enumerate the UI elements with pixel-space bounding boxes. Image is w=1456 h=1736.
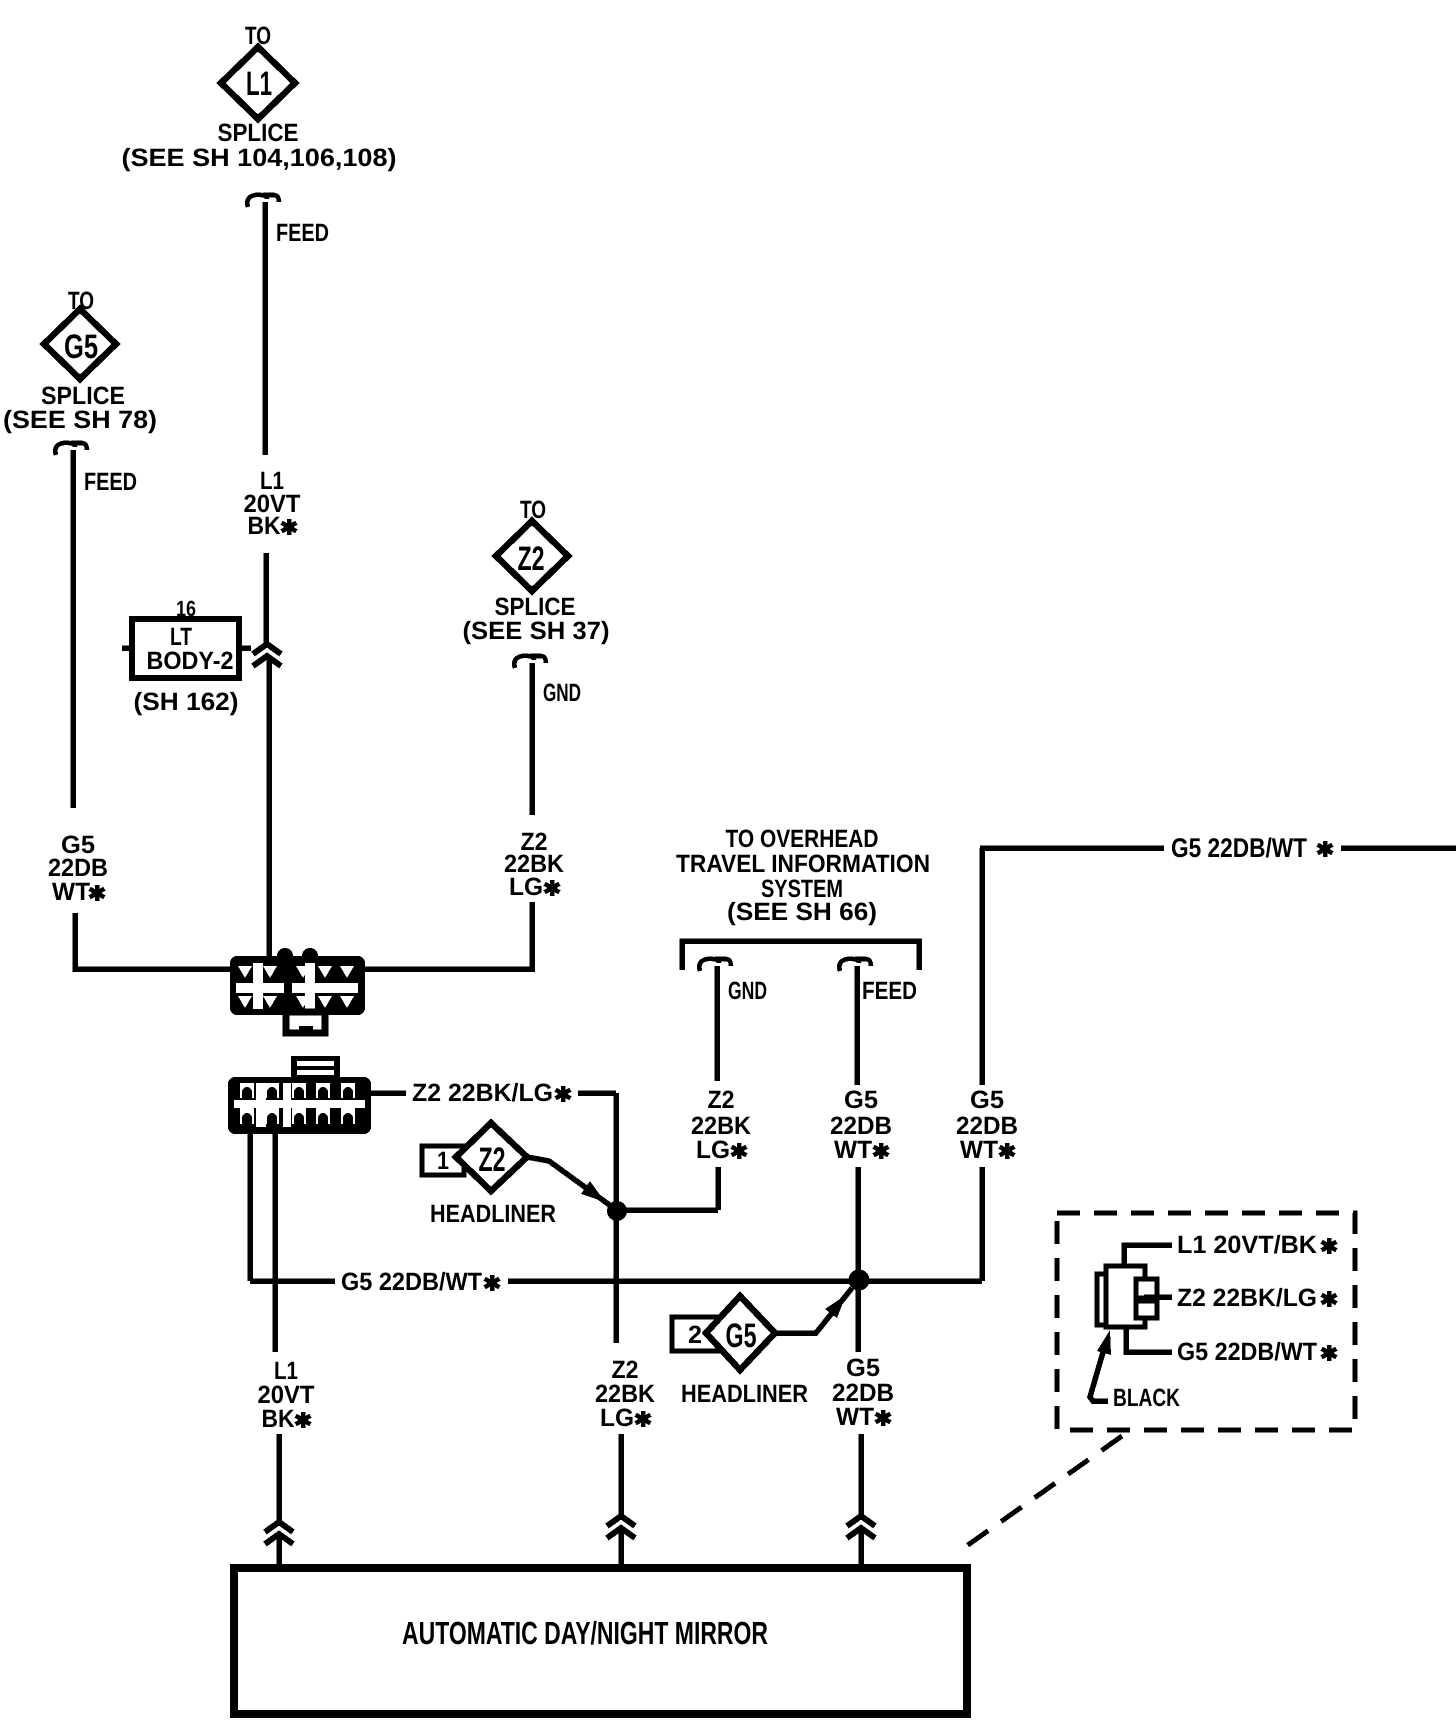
connector C2 (lower 10-way)	[228, 1056, 371, 1134]
svg-text:1: 1	[437, 1147, 449, 1175]
wire Z2 gnd drop	[714, 966, 720, 1081]
svg-text:G5: G5	[846, 1354, 880, 1382]
svg-text:LG: LG	[509, 873, 543, 901]
svg-text:(SEE SH 66): (SEE SH 66)	[727, 898, 877, 926]
splice symbol Z2	[463, 496, 610, 645]
svg-text:G5: G5	[970, 1086, 1004, 1114]
label G5 22DB WT* (right column)	[956, 1086, 1018, 1164]
wire junction A arm to Z2 gnd drop	[617, 1167, 718, 1210]
wire Z2 into connector C1 right side	[365, 902, 532, 969]
wire G5 22DB/WT* (detail)	[1126, 1327, 1172, 1352]
connector hook GND drop	[699, 959, 731, 971]
connector hook to Z2 splice	[514, 656, 546, 668]
svg-text:G5 22DB/WT: G5 22DB/WT	[341, 1268, 482, 1296]
svg-text:LG: LG	[600, 1404, 634, 1432]
wire L1 20VT/BK* (detail)	[1124, 1245, 1172, 1266]
connector hook FEED drop	[839, 959, 871, 971]
svg-text:L1: L1	[246, 65, 272, 103]
bracket for overhead travel information system	[682, 941, 919, 970]
svg-text:G5: G5	[64, 328, 98, 366]
wire G5 22DB/WT* horizontal	[250, 1134, 982, 1281]
svg-text:G5 22DB/WT: G5 22DB/WT	[1177, 1338, 1317, 1366]
svg-text:TRAVEL INFORMATION: TRAVEL INFORMATION	[676, 850, 930, 878]
svg-text:G5 22DB/WT: G5 22DB/WT	[1171, 833, 1307, 863]
label G5 22DB WT* (feed drop column)	[830, 1086, 892, 1164]
wire Z2 vertical to junction	[613, 1093, 619, 1343]
junction B (dot)	[849, 1270, 870, 1291]
svg-text:AUTOMATIC DAY/NIGHT MIRROR: AUTOMATIC DAY/NIGHT MIRROR	[402, 1615, 768, 1651]
svg-text:SPLICE: SPLICE	[218, 119, 299, 147]
label Z2 22BK LG* (column)	[504, 828, 564, 901]
svg-text:(SEE SH 78): (SEE SH 78)	[3, 406, 157, 434]
wire G5 right vertical	[979, 848, 985, 1281]
wire L1 feed upper	[262, 202, 268, 455]
svg-text:WT: WT	[960, 1136, 998, 1164]
wire G5 feed to junction B	[855, 1167, 861, 1352]
wire L1 bottom with chevron	[276, 1434, 282, 1522]
svg-text:FEED: FEED	[276, 219, 329, 247]
svg-text:(SEE SH 104,106,108): (SEE SH 104,106,108)	[122, 144, 397, 172]
label BLACK with arrow	[1090, 1342, 1108, 1401]
svg-text:(SEE SH 37): (SEE SH 37)	[463, 617, 610, 645]
connector hook to G5 splice	[55, 443, 87, 455]
label Z2 22BK LG* (gnd drop column)	[691, 1086, 751, 1164]
svg-text:WT: WT	[834, 1136, 872, 1164]
headliner tag 2 G5	[672, 1296, 808, 1408]
svg-text:FEED: FEED	[862, 977, 917, 1005]
wire L1 mid	[263, 553, 269, 644]
svg-text:FEED: FEED	[84, 468, 137, 496]
dashed detail box	[1057, 1213, 1355, 1430]
wire Z2 22BK/LG from connector C2	[371, 1090, 616, 1096]
component box 16 LT BODY-2	[122, 596, 251, 716]
svg-text:2: 2	[688, 1321, 702, 1349]
svg-text:HEADLINER: HEADLINER	[430, 1200, 556, 1228]
svg-text:Z2: Z2	[708, 1086, 735, 1114]
in-line connector chevron (L1 wire)	[253, 644, 281, 666]
svg-text:Z2 22BK/LG: Z2 22BK/LG	[1177, 1284, 1317, 1312]
dashed leader to mirror box	[958, 1436, 1122, 1552]
svg-text:G5: G5	[726, 1317, 757, 1355]
splice symbol L1 (top)	[122, 22, 397, 172]
wire Z2 22BK/LG* (detail)	[1144, 1294, 1172, 1300]
connector C1 (upper 10-way)	[230, 948, 365, 1034]
svg-text:Z2 22BK/LG: Z2 22BK/LG	[412, 1079, 553, 1107]
headliner tag 1 Z2	[422, 1123, 556, 1228]
svg-text:TO OVERHEAD: TO OVERHEAD	[726, 825, 879, 853]
label L1 20VT BK* (upper column)	[244, 467, 301, 540]
svg-text:GND: GND	[543, 679, 581, 707]
svg-text:WT: WT	[52, 878, 90, 906]
svg-text:Z2: Z2	[479, 1141, 506, 1179]
svg-text:WT: WT	[836, 1403, 874, 1431]
wire G5 bottom with chevron	[858, 1434, 864, 1516]
wire G5 into connector C1	[75, 913, 230, 969]
wire L1 to mirror	[272, 1134, 278, 1352]
label TO OVERHEAD TRAVEL INFORMATION SYSTEM (SEE SH 66)	[676, 825, 930, 926]
svg-text:Z2: Z2	[518, 540, 545, 578]
svg-text:BK: BK	[248, 512, 281, 540]
svg-text:(SH 162): (SH 162)	[134, 688, 239, 716]
svg-text:L1 20VT/BK: L1 20VT/BK	[1177, 1231, 1317, 1259]
tag wire 1 with arrow to junction A	[527, 1157, 611, 1206]
label G5 22DB WT* (bottom column)	[832, 1354, 894, 1431]
label L1 20VT BK* (bottom column)	[258, 1357, 315, 1433]
wire G5 feed drop	[854, 966, 860, 1085]
splice symbol G5 (left)	[3, 287, 157, 434]
svg-text:LG: LG	[696, 1136, 730, 1164]
svg-text:HEADLINER: HEADLINER	[681, 1380, 808, 1408]
mirror connector icon	[1097, 1266, 1157, 1327]
wire Z2 gnd upper	[529, 663, 535, 815]
junction A (dot)	[607, 1201, 627, 1221]
svg-text:BLACK: BLACK	[1113, 1384, 1180, 1412]
wire L1 lower into connector C1	[266, 656, 272, 956]
svg-text:BK: BK	[262, 1405, 295, 1433]
component box AUTOMATIC DAY/NIGHT MIRROR	[234, 1568, 967, 1714]
svg-text:BODY-2: BODY-2	[147, 647, 234, 675]
label Z2 22BK LG* (bottom column)	[595, 1356, 655, 1432]
wire G5 feed upper	[70, 450, 76, 808]
wire Z2 bottom with chevron	[618, 1434, 624, 1516]
svg-text:G5: G5	[844, 1086, 878, 1114]
tag wire 2 with arrow to junction B	[775, 1288, 852, 1333]
label G5 22DB WT* (left column)	[48, 831, 108, 906]
connector hook to L1 splice	[247, 195, 279, 207]
svg-text:GND: GND	[728, 977, 767, 1005]
wire G5 22DB/WT top right	[980, 845, 1456, 851]
